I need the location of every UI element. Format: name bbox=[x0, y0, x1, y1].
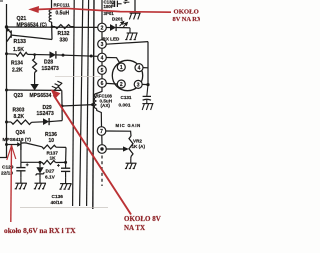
red arrow line (8V NA RX) bbox=[33, 8, 171, 12]
svg-text:180P: 180P bbox=[104, 4, 114, 9]
wire connector 4-5 bbox=[101, 62, 103, 66]
svg-text:6: 6 bbox=[101, 81, 104, 87]
filter pin 2 bbox=[117, 80, 125, 88]
svg-text:2.2K: 2.2K bbox=[12, 68, 23, 74]
tick top left corner bbox=[0, 0, 3, 2]
red arrow line (8V NA TX) bbox=[54, 95, 132, 215]
LED D201 bbox=[110, 24, 116, 31]
wire top right vertical bbox=[134, 0, 136, 12]
svg-text:40/16: 40/16 bbox=[51, 200, 63, 206]
svg-text:R134: R134 bbox=[11, 61, 23, 67]
ground under D27 bbox=[34, 178, 46, 189]
LED light arrows bbox=[120, 22, 128, 28]
connector pin 7 bbox=[97, 127, 106, 136]
wire LED to ground bbox=[116, 27, 130, 29]
capacitor C130 bbox=[112, 3, 115, 5]
wire connector column dashed bbox=[101, 156, 103, 187]
node C136 top bbox=[64, 161, 67, 164]
svg-text:4: 4 bbox=[101, 55, 104, 61]
wire R136 to C136 node bbox=[56, 146, 66, 148]
wire connector 3 to filter vertical bbox=[106, 42, 148, 45]
svg-text:2: 2 bbox=[101, 25, 104, 31]
connector pin 3 bbox=[98, 40, 107, 49]
diode D28 bbox=[50, 51, 56, 58]
connector pin 6 bbox=[98, 79, 107, 88]
resistor R133 bbox=[16, 52, 28, 56]
svg-text:D28: D28 bbox=[44, 60, 53, 66]
svg-text:8V NA RX: 8V NA RX bbox=[173, 16, 201, 23]
svg-text:około 8,6V na RX i TX: około 8,6V na RX i TX bbox=[4, 226, 76, 235]
transistor Q24 bbox=[17, 142, 21, 147]
potentiometer VR2 element bbox=[129, 136, 133, 157]
svg-text:1S2473: 1S2473 bbox=[42, 66, 59, 72]
svg-text:R133: R133 bbox=[14, 39, 27, 45]
svg-text:(AX): (AX) bbox=[101, 103, 111, 108]
wire R134 stub bbox=[34, 55, 36, 59]
wire Q21 base to RFC111 bottom bbox=[11, 35, 52, 40]
wire connector 3-4 bbox=[101, 48, 103, 53]
svg-text:R136: R136 bbox=[45, 132, 57, 138]
node wire A mid bbox=[62, 54, 65, 57]
svg-text:Q21: Q21 bbox=[17, 16, 27, 22]
wire R134 to Q23 bbox=[34, 73, 36, 85]
wire connector 6 to filter pin 2 bbox=[106, 82, 117, 85]
svg-text:1S2473: 1S2473 bbox=[37, 111, 54, 117]
wire D29 to mid vertical bbox=[49, 121, 62, 122]
svg-text:D27: D27 bbox=[46, 168, 55, 174]
node left bus / R303 net bbox=[5, 121, 8, 124]
svg-text:D29: D29 bbox=[43, 105, 52, 111]
svg-text:OKOŁO 8V: OKOŁO 8V bbox=[124, 215, 161, 223]
ground under C129 bbox=[15, 177, 27, 188]
wire Q24 emitter bbox=[7, 144, 18, 146]
node R134 tap bbox=[33, 53, 36, 56]
node mid vertical bbox=[61, 105, 64, 108]
red arrow vertical (8,6V) bbox=[10, 145, 13, 222]
ground at C130 (up) bbox=[123, 0, 129, 3]
svg-text:1K (A): 1K (A) bbox=[132, 144, 146, 149]
connector pin 8 wiper dot bbox=[100, 147, 103, 150]
resistor R136 bbox=[42, 145, 56, 149]
diode D29 bbox=[43, 118, 49, 125]
svg-text:MPS6419 (T): MPS6419 (T) bbox=[3, 137, 32, 143]
svg-text:OKOŁO: OKOŁO bbox=[174, 9, 199, 16]
svg-text:RX LED: RX LED bbox=[103, 37, 121, 42]
wire connector 4 to filter pin 1 bbox=[106, 58, 120, 64]
svg-text:0.001: 0.001 bbox=[119, 102, 131, 108]
connector pin 5 bbox=[98, 66, 107, 75]
node left bus / connector-2 net bbox=[5, 25, 8, 28]
svg-text:2: 2 bbox=[120, 82, 123, 88]
resistor R137 bbox=[42, 160, 56, 164]
wire RFC108 to connector 7 bbox=[97, 109, 102, 127]
wire mid row to bus 4 bbox=[62, 105, 93, 106]
resistor R134 bbox=[33, 59, 37, 73]
svg-text:MPS6534: MPS6534 bbox=[30, 93, 52, 99]
wire connector 7 to VR2 top bbox=[106, 131, 131, 136]
svg-text:VR2: VR2 bbox=[133, 138, 142, 143]
capacitor C136 bbox=[65, 162, 67, 168]
transistor Q23 (emitter arrow) bbox=[30, 84, 38, 90]
wire connector 7-8 bbox=[101, 135, 103, 144]
connector pin 4 bbox=[98, 53, 107, 62]
svg-text:RFC111: RFC111 bbox=[54, 3, 71, 8]
svg-text:R303: R303 bbox=[13, 108, 25, 114]
wire connector 2-3 bbox=[101, 32, 103, 40]
wire connector 5-6 bbox=[101, 74, 103, 78]
transistor Q21 bbox=[7, 29, 11, 42]
wire vertical bus 4 bbox=[93, 0, 94, 209]
wire VR2 bottom bbox=[130, 157, 132, 159]
svg-text:C136: C136 bbox=[52, 194, 64, 200]
svg-text:7: 7 bbox=[100, 129, 103, 135]
wire vertical bus 3 bbox=[87, 0, 89, 206]
wire connector column top bbox=[101, 0, 103, 23]
wire R132 to bus 1 bbox=[71, 26, 75, 28]
node filter pin3 / C131 bbox=[146, 83, 149, 86]
capacitor C129 bbox=[20, 162, 22, 167]
wire Q24 collector to R136 bbox=[28, 144, 42, 147]
svg-text:D201: D201 bbox=[112, 17, 123, 22]
svg-text:C129: C129 bbox=[2, 164, 14, 170]
svg-text:C131: C131 bbox=[121, 95, 132, 100]
node D27 tap bbox=[39, 161, 42, 164]
svg-text:3: 3 bbox=[101, 42, 104, 48]
crease line mid bbox=[55, 76, 100, 78]
wire D28 to connector pin 4 bbox=[56, 55, 97, 56]
wire left vertical bus bbox=[6, 4, 8, 158]
resistor R132 bbox=[55, 25, 71, 29]
ground top right (hatch) bbox=[129, 12, 140, 20]
ground near Q23 (slanted hatch) bbox=[51, 80, 65, 94]
svg-text:5: 5 bbox=[101, 68, 104, 74]
wire R303 to D29 bbox=[32, 121, 44, 124]
filter pin 3 bbox=[134, 80, 142, 88]
filter pin 1 bbox=[117, 63, 125, 71]
svg-text:3: 3 bbox=[137, 82, 140, 88]
zener diode D27 bbox=[39, 162, 41, 167]
wire Q23 row bbox=[7, 89, 62, 91]
wire vertical bus 2 bbox=[80, 0, 83, 206]
VR2 wiper arrow bbox=[106, 148, 123, 150]
crystal filter body bbox=[112, 60, 142, 90]
node left bus / Q24 emitter net bbox=[5, 143, 8, 146]
svg-text:Q24: Q24 bbox=[16, 130, 26, 136]
wire left bus to connector pin 2 bbox=[7, 26, 98, 28]
ground under C131 (hatch) bbox=[142, 102, 153, 110]
svg-text:0.5uH: 0.5uH bbox=[56, 11, 70, 17]
svg-text:1: 1 bbox=[120, 65, 123, 71]
svg-text:NA TX: NA TX bbox=[124, 224, 145, 232]
inductor RFC111 bbox=[51, 0, 53, 10]
wire R133 to D28 bbox=[28, 53, 50, 55]
svg-text:MIC GAIN: MIC GAIN bbox=[116, 123, 141, 128]
wire R137 row bbox=[21, 161, 42, 163]
wire filter pin 3 stub bbox=[142, 83, 148, 85]
ground under VR2 (hatch) bbox=[125, 159, 137, 169]
svg-text:8.2K: 8.2K bbox=[14, 114, 25, 120]
wire filter right vertical bbox=[147, 42, 149, 85]
svg-text:R132: R132 bbox=[58, 31, 70, 37]
node left bus / Q23 net bbox=[5, 89, 8, 92]
wire connector 6 to RFC108 bbox=[97, 87, 103, 93]
wire R303 row left bbox=[7, 121, 12, 123]
wire Q23 row to R303 row vertical bbox=[61, 90, 63, 120]
svg-text:330: 330 bbox=[60, 38, 69, 44]
ground at RX LED (hatch right) bbox=[125, 28, 137, 40]
svg-text:4: 4 bbox=[138, 66, 141, 72]
filter pin 4 bbox=[135, 64, 143, 72]
svg-text:6.1V: 6.1V bbox=[45, 175, 56, 181]
svg-text:1K: 1K bbox=[50, 155, 57, 161]
resistor R303 bbox=[11, 120, 32, 125]
svg-text:Q23: Q23 bbox=[14, 93, 24, 99]
connector pin 8 bbox=[98, 145, 107, 154]
capacitor C131 bbox=[147, 85, 148, 97]
node RFC111 / R132 bbox=[51, 25, 54, 28]
wire RFC111 to R132 bbox=[52, 26, 55, 28]
svg-text:10: 10 bbox=[49, 138, 55, 144]
wire connector 2 to LED bbox=[106, 27, 110, 29]
crease line bottom bbox=[20, 206, 108, 208]
wire Q24 base down bbox=[20, 150, 22, 162]
node mid row at bus 4 bbox=[91, 103, 94, 106]
wire R137 to C136 node bbox=[56, 161, 66, 163]
node wire A at bus 4 bbox=[90, 55, 93, 58]
connector pin 2 bbox=[98, 23, 107, 32]
wire R133 row left bbox=[7, 53, 17, 55]
ground under C136 bbox=[59, 178, 71, 189]
node left bus / R133 net bbox=[5, 52, 8, 55]
wire filter pin 4 stub bbox=[143, 67, 148, 69]
inductor RFC108 bbox=[94, 94, 96, 109]
wire vertical bus 1 bbox=[73, 0, 75, 206]
svg-text:1.5K: 1.5K bbox=[13, 47, 24, 53]
